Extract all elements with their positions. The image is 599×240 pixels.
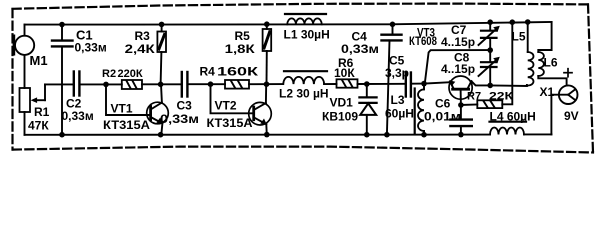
svg-text:4..15p: 4..15p xyxy=(441,62,475,76)
inductor L1 xyxy=(285,14,326,24)
svg-text:VD1: VD1 xyxy=(330,96,354,110)
junction dot L3 bottom xyxy=(421,132,427,138)
svg-text:47К: 47К xyxy=(28,119,49,133)
svg-text:Х1: Х1 xyxy=(540,85,555,99)
resistor R5 xyxy=(263,24,272,84)
junction dot C1 bottom xyxy=(59,132,65,138)
svg-text:0,01м: 0,01м xyxy=(424,110,461,124)
junction dot base node VT1 xyxy=(103,82,109,88)
wire top rail xyxy=(25,22,552,25)
svg-text:0,33м: 0,33м xyxy=(341,42,379,56)
svg-text:VT1: VT1 xyxy=(111,102,133,116)
junction dot C7 C8 tap xyxy=(487,47,493,53)
svg-text:R7: R7 xyxy=(467,91,481,103)
wire M1 top lead xyxy=(24,25,26,36)
inductor L4 xyxy=(490,122,527,135)
svg-text:L2 30 µН: L2 30 µН xyxy=(279,87,329,101)
wire VT2 base L xyxy=(211,84,254,113)
junction dot VD1 top xyxy=(364,81,370,87)
resistor R4 xyxy=(225,80,249,89)
capacitor C6 xyxy=(450,105,471,135)
svg-text:L5: L5 xyxy=(512,30,526,44)
inductor L2 xyxy=(283,71,327,84)
wire R1 bottom lead xyxy=(24,112,26,135)
svg-text:R2: R2 xyxy=(102,68,116,80)
svg-text:0,33м: 0,33м xyxy=(160,112,199,126)
enclosure dashed frame xyxy=(13,4,594,153)
svg-text:R3: R3 xyxy=(135,29,151,43)
resistor R7 xyxy=(461,22,512,108)
svg-text:L6: L6 xyxy=(544,56,558,70)
trimmer capacitor C8 xyxy=(479,50,500,85)
capacitor C2 xyxy=(74,72,80,96)
svg-text:4..15p: 4..15p xyxy=(441,35,475,49)
svg-text:10К: 10К xyxy=(334,66,355,80)
svg-text:9V: 9V xyxy=(564,109,579,123)
transistor VT3 xyxy=(449,76,490,105)
svg-text:VT2: VT2 xyxy=(215,99,237,113)
junction dot VT1 collector node xyxy=(158,82,164,88)
svg-text:КТ608: КТ608 xyxy=(409,34,437,48)
svg-text:КТ315А: КТ315А xyxy=(207,116,253,130)
transistor VT2 xyxy=(249,84,272,135)
inductor L5 xyxy=(528,22,534,86)
junction dot C4 top xyxy=(390,22,396,28)
junction dot VD1 bottom xyxy=(364,132,370,138)
wire L2 to R6 xyxy=(324,83,336,85)
wire wiper to C2 xyxy=(45,83,73,85)
svg-text:1,8К: 1,8К xyxy=(225,42,256,56)
junction dot C4 bottom xyxy=(384,132,390,138)
wire M1 bottom lead to R1 xyxy=(24,55,26,88)
svg-text:С3: С3 xyxy=(177,99,193,113)
svg-text:220К: 220К xyxy=(118,68,143,80)
svg-text:60µН: 60µН xyxy=(385,107,414,121)
junction dot emitter node VT3 xyxy=(421,81,427,87)
wire bottom rail left xyxy=(25,134,491,136)
junction dot L5 top xyxy=(525,19,531,25)
junction dot R7 rail xyxy=(510,19,516,25)
trimmer capacitor C7 xyxy=(479,22,500,50)
wire VT1 base L xyxy=(106,84,150,115)
resistor R6 xyxy=(337,79,358,87)
svg-text:R5: R5 xyxy=(235,29,251,43)
svg-text:L1 30µН: L1 30µН xyxy=(284,28,330,42)
wire bottom rail right xyxy=(524,133,552,135)
capacitor C4 xyxy=(382,24,402,135)
junction dot VT2 collector node xyxy=(264,81,270,87)
junction dot C7 top xyxy=(487,19,493,25)
capacitor C3 xyxy=(182,72,188,97)
svg-text:2,4К: 2,4К xyxy=(125,42,156,56)
svg-text:3,3p: 3,3p xyxy=(385,66,409,80)
svg-text:R4: R4 xyxy=(200,65,216,79)
connector X1 xyxy=(551,85,577,134)
capacitor C1 xyxy=(52,25,73,135)
inductor L3 xyxy=(415,84,424,135)
potentiometer R1 xyxy=(20,88,46,112)
svg-text:С6: С6 xyxy=(435,97,451,111)
wire C3 to R4 xyxy=(188,83,225,85)
svg-text:0,33м: 0,33м xyxy=(62,109,94,123)
svg-text:22К: 22К xyxy=(489,91,513,103)
resistor R3 xyxy=(157,24,166,84)
wire R2 to collector node xyxy=(142,83,181,85)
junction dot R5 top xyxy=(264,21,270,27)
svg-text:КТ315А: КТ315А xyxy=(103,118,150,132)
wire collector node to L5 bottom xyxy=(490,85,527,86)
junction dot base node VT2 xyxy=(208,81,214,87)
junction dot VT1 emitter ground xyxy=(158,132,164,138)
transistor VT1 xyxy=(147,84,169,135)
resistor R2 xyxy=(122,80,142,89)
microphone M1 xyxy=(14,36,34,55)
svg-text:КВ109: КВ109 xyxy=(322,110,358,124)
capacitor C5 xyxy=(406,73,411,97)
wire C5 to emitter node xyxy=(412,83,424,85)
wire C2 to R2 xyxy=(80,83,121,85)
junction dot C1 top xyxy=(59,22,65,28)
junction dot VT3 base node xyxy=(458,102,464,108)
wire R6 to C5 xyxy=(358,83,406,85)
label X1 plus xyxy=(564,69,572,77)
svg-text:L3: L3 xyxy=(391,93,405,107)
svg-text:М1: М1 xyxy=(30,53,48,68)
varicap VD1 xyxy=(359,84,376,135)
wire R1 wiper riser xyxy=(44,84,46,100)
svg-text:160К: 160К xyxy=(217,65,259,79)
junction dot R3 top xyxy=(159,22,165,28)
wire feedback riser to C7 C8 tap xyxy=(425,50,490,83)
junction dot C8 bottom collector node xyxy=(487,83,493,89)
inductor L6 xyxy=(538,22,566,86)
wire R4 to collector node VT2 xyxy=(249,83,283,85)
svg-text:R1: R1 xyxy=(34,105,50,119)
junction dot C6 bottom xyxy=(458,132,464,138)
junction dot VT2 emitter ground xyxy=(264,132,270,138)
svg-text:L4 60µН: L4 60µН xyxy=(490,110,536,124)
svg-text:0,33м: 0,33м xyxy=(75,41,107,55)
wire emitter node to VT3 xyxy=(424,82,450,83)
